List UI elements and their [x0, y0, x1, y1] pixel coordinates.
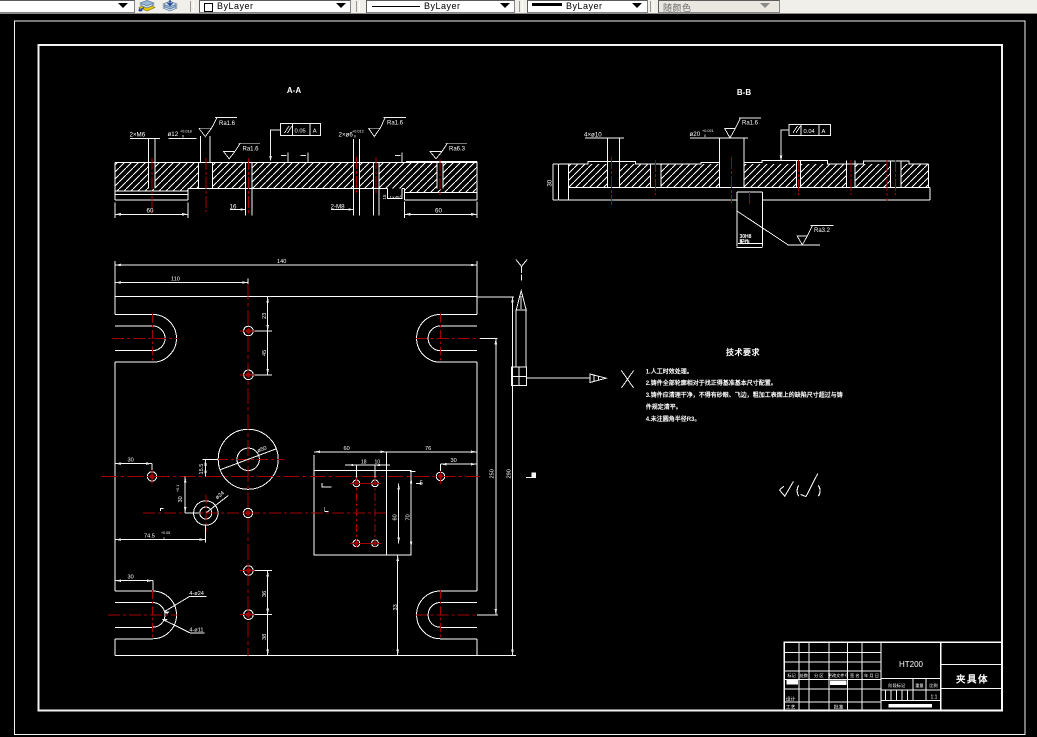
arrowheads [115, 264, 514, 656]
top dim texts [584, 129, 714, 138]
channel edges [149, 162, 443, 188]
svg-text:配作: 配作 [740, 239, 750, 246]
svg-text:2×M6: 2×M6 [130, 132, 146, 139]
svg-text:10: 10 [375, 459, 381, 465]
svg-text:16: 16 [230, 204, 237, 211]
svg-text:年 月 日: 年 月 日 [864, 672, 879, 679]
svg-text:30: 30 [451, 458, 457, 464]
dim texts [128, 259, 513, 640]
svg-text:140: 140 [277, 259, 286, 265]
toolbar [0, 0, 1037, 14]
svg-text:签 名: 签 名 [850, 672, 860, 679]
svg-text:1.人工时效处理。: 1.人工时效处理。 [646, 368, 693, 376]
small boss circle [194, 501, 218, 525]
svg-text:30: 30 [128, 575, 134, 581]
svg-text:60: 60 [344, 446, 350, 452]
chamfer notch [388, 188, 405, 198]
svg-text:Ra3.2: Ra3.2 [814, 228, 831, 234]
svg-text:33: 33 [393, 604, 399, 610]
red centerlines [152, 157, 440, 215]
svg-text:0: 0 [704, 134, 706, 138]
leaders [164, 596, 206, 612]
left grid verticals [799, 642, 862, 710]
svg-text:38: 38 [262, 634, 268, 640]
right step block [405, 188, 478, 200]
X shaft [526, 377, 590, 379]
Y shaft double line [516, 310, 526, 367]
svg-text:A: A [822, 129, 826, 135]
svg-text:4.未注圆角半径R3。: 4.未注圆角半径R3。 [646, 415, 701, 423]
red centerlines [612, 157, 896, 205]
svg-text:阶段标记: 阶段标记 [888, 682, 906, 689]
svg-text:夹具体: 夹具体 [955, 674, 989, 686]
left cap [559, 164, 569, 200]
dim lines [130, 138, 197, 140]
small circle vertical [205, 495, 207, 532]
channel edges [608, 160, 901, 187]
svg-text:0: 0 [354, 135, 356, 139]
svg-text:0: 0 [163, 537, 165, 541]
bottom-right slot [417, 591, 477, 639]
svg-text:Ra1.6: Ra1.6 [243, 146, 260, 152]
svg-text:分 区: 分 区 [814, 672, 824, 679]
svg-text:批准: 批准 [834, 703, 844, 710]
small L marks [322, 483, 331, 511]
svg-text:0.05: 0.05 [295, 128, 306, 134]
X hollow arrowhead [590, 374, 606, 383]
extension and dim lines [553, 138, 763, 248]
filled blobs (illegible stamps) [787, 680, 798, 684]
title block outer [784, 642, 1001, 710]
svg-text:A-A: A-A [287, 86, 301, 95]
bottom-left slot [115, 591, 177, 639]
Y arrow stem [520, 275, 522, 281]
hatched bar [569, 164, 929, 187]
svg-text:23: 23 [262, 313, 268, 319]
square outline with slot gaps [115, 297, 477, 656]
base plate [559, 164, 930, 200]
svg-text:15: 15 [382, 194, 387, 200]
svg-text:更改文件号: 更改文件号 [828, 672, 849, 679]
svg-text:0: 0 [182, 135, 184, 139]
origin box [512, 367, 527, 386]
svg-text:+0.021: +0.021 [702, 129, 714, 133]
svg-text:70: 70 [405, 514, 411, 520]
svg-text:76: 76 [425, 446, 431, 452]
svg-text:30: 30 [128, 458, 134, 464]
red centerlines [102, 284, 481, 656]
plotstyle combo (disabled) [658, 0, 780, 13]
svg-text:+0.1: +0.1 [176, 485, 180, 492]
hatched bar [115, 162, 477, 188]
slot centerlines [112, 337, 178, 339]
dim arrows [115, 208, 477, 215]
svg-text:ø20: ø20 [690, 131, 701, 138]
top edge with bosses [569, 160, 929, 164]
left step block [115, 191, 188, 200]
sub rectangle [314, 470, 411, 555]
svg-text:Ra1.6: Ra1.6 [742, 121, 759, 127]
svg-text:250: 250 [489, 469, 495, 478]
top-left slot [115, 314, 176, 362]
svg-text:HT200: HT200 [899, 660, 924, 669]
svg-text:ø24: ø24 [215, 490, 226, 501]
left grid horizontals [784, 653, 881, 702]
svg-text:Ra1.6: Ra1.6 [387, 120, 404, 126]
rect hole columns [355, 478, 357, 549]
svg-text:36: 36 [262, 591, 268, 597]
Y hollow arrowhead [516, 291, 526, 310]
bar outline [115, 161, 477, 200]
texts [787, 672, 937, 689]
center bottom block [737, 192, 763, 246]
svg-text:比例: 比例 [929, 682, 937, 689]
roughness symbol top [725, 118, 761, 138]
svg-text:B-B: B-B [737, 88, 751, 97]
hole cross ticks [240, 331, 257, 615]
svg-text:1:1: 1:1 [931, 695, 938, 701]
svg-text:重量: 重量 [915, 682, 923, 689]
small holes [147, 326, 444, 619]
svg-text:件规定清平。: 件规定清平。 [646, 403, 682, 411]
right region [941, 665, 1002, 689]
svg-text:2.铸件全部轮廓相对于找正得基准基本尺寸配置。: 2.铸件全部轮廓相对于找正得基准基本尺寸配置。 [646, 379, 777, 387]
svg-text:290: 290 [506, 469, 512, 478]
hole channels [608, 160, 901, 188]
svg-text:5: 5 [420, 481, 424, 487]
top-right slot [417, 314, 477, 362]
svg-text:30: 30 [178, 496, 184, 502]
svg-text:15.5: 15.5 [199, 464, 205, 475]
dimension lines and extension lines [115, 261, 536, 656]
big circle horizontal [217, 458, 285, 460]
svg-text:A: A [313, 129, 317, 135]
svg-text:45: 45 [262, 350, 268, 356]
svg-text:4-ø24: 4-ø24 [189, 591, 204, 597]
main centerlines [247, 284, 249, 656]
svg-text:Ra6.3: Ra6.3 [449, 146, 466, 152]
dim texts [130, 130, 443, 215]
center big circle [218, 429, 278, 489]
middle region [881, 679, 941, 701]
lineweight combo [527, 0, 648, 13]
svg-text:0.04: 0.04 [804, 129, 816, 135]
svg-text:标记: 标记 [787, 672, 796, 679]
layer icons [137, 0, 183, 13]
surface finish note: small check [780, 474, 818, 497]
svg-text:Ra1.6: Ra1.6 [219, 121, 236, 127]
svg-text:设计: 设计 [786, 696, 796, 703]
svg-text:+0.05: +0.05 [161, 531, 170, 535]
svg-text:60: 60 [392, 514, 398, 520]
color combo [199, 0, 351, 13]
bottom roughness symbol [797, 226, 833, 245]
parallelism tolerance frame [271, 124, 321, 160]
svg-text:110: 110 [171, 277, 180, 283]
svg-text:处数: 处数 [800, 672, 809, 679]
svg-text:1×45°: 1×45° [390, 195, 402, 200]
svg-text:60: 60 [147, 208, 154, 215]
svg-text:4×ø10: 4×ø10 [584, 131, 602, 138]
svg-text:技术要求: 技术要求 [726, 347, 760, 357]
X glyph [621, 371, 633, 389]
svg-text:4-ø11: 4-ø11 [189, 627, 203, 633]
small datum ticks on top edge [281, 153, 402, 162]
roughness symbols [199, 117, 467, 159]
parallelism frame [781, 124, 831, 159]
svg-text:工艺: 工艺 [786, 704, 796, 710]
linetype combo [366, 0, 515, 13]
hole channels [149, 162, 443, 189]
svg-text:60: 60 [435, 208, 442, 215]
svg-text:+0.012: +0.012 [352, 130, 364, 134]
svg-text:2-M8: 2-M8 [331, 204, 346, 211]
svg-text:ø12: ø12 [168, 131, 179, 138]
svg-text:18: 18 [361, 459, 367, 465]
hole row line [143, 512, 388, 514]
svg-text:+0.018: +0.018 [180, 130, 192, 134]
svg-text:74.5: 74.5 [144, 534, 155, 540]
svg-text:30: 30 [548, 179, 554, 186]
Y glyph [516, 260, 527, 274]
layer combo (cut off) [0, 0, 135, 13]
extension lines [115, 136, 477, 218]
svg-text:3.铸件应清理干净，不得有砂眼、飞边，粗加工表面上的缺陷尺寸: 3.铸件应清理干净，不得有砂眼、飞边，粗加工表面上的缺陷尺寸超过与铸 [646, 391, 843, 399]
